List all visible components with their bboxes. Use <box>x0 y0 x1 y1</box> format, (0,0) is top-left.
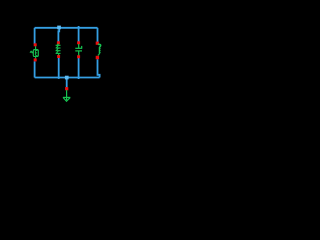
wire top horizontal net <box>35 27 98 29</box>
pin dot R1 bottom <box>57 55 60 58</box>
wire capacitor branch lower <box>78 58 80 79</box>
inductor L1 arcs <box>98 44 101 55</box>
wire left vertical lower (V1 pin to bottom rail) <box>34 61 36 77</box>
wire ground branch <box>66 78 68 88</box>
wire left vertical upper (top rail to V1 pin) <box>34 28 36 44</box>
junction top node A (resistor tap) <box>57 26 61 30</box>
ground symbol <box>63 90 70 101</box>
pin dot R1 top <box>57 41 60 44</box>
wire resistor branch upper with jog <box>57 28 60 42</box>
V1 sine label squiggle <box>30 51 33 52</box>
pin dot V1 bottom <box>34 58 37 61</box>
wire inductor branch lower with jog <box>98 59 100 77</box>
pin dot ground <box>65 87 68 90</box>
resistor R1 zigzag <box>56 44 61 56</box>
pin dot C1 bottom <box>77 55 80 58</box>
wire resistor branch lower <box>58 58 60 79</box>
pin dot L1 bottom <box>96 56 99 59</box>
pin dot L1 top <box>96 42 99 45</box>
wire bottom horizontal net <box>35 77 100 79</box>
capacitor C1 <box>75 44 82 55</box>
wire capacitor branch upper <box>78 26 80 42</box>
pin dot V1 top <box>34 43 37 46</box>
voltage source V1 <box>33 46 38 58</box>
wire inductor branch upper <box>97 28 99 42</box>
junction bottom node B (ground tap) <box>65 76 69 80</box>
pin dot C1 top <box>77 41 80 44</box>
